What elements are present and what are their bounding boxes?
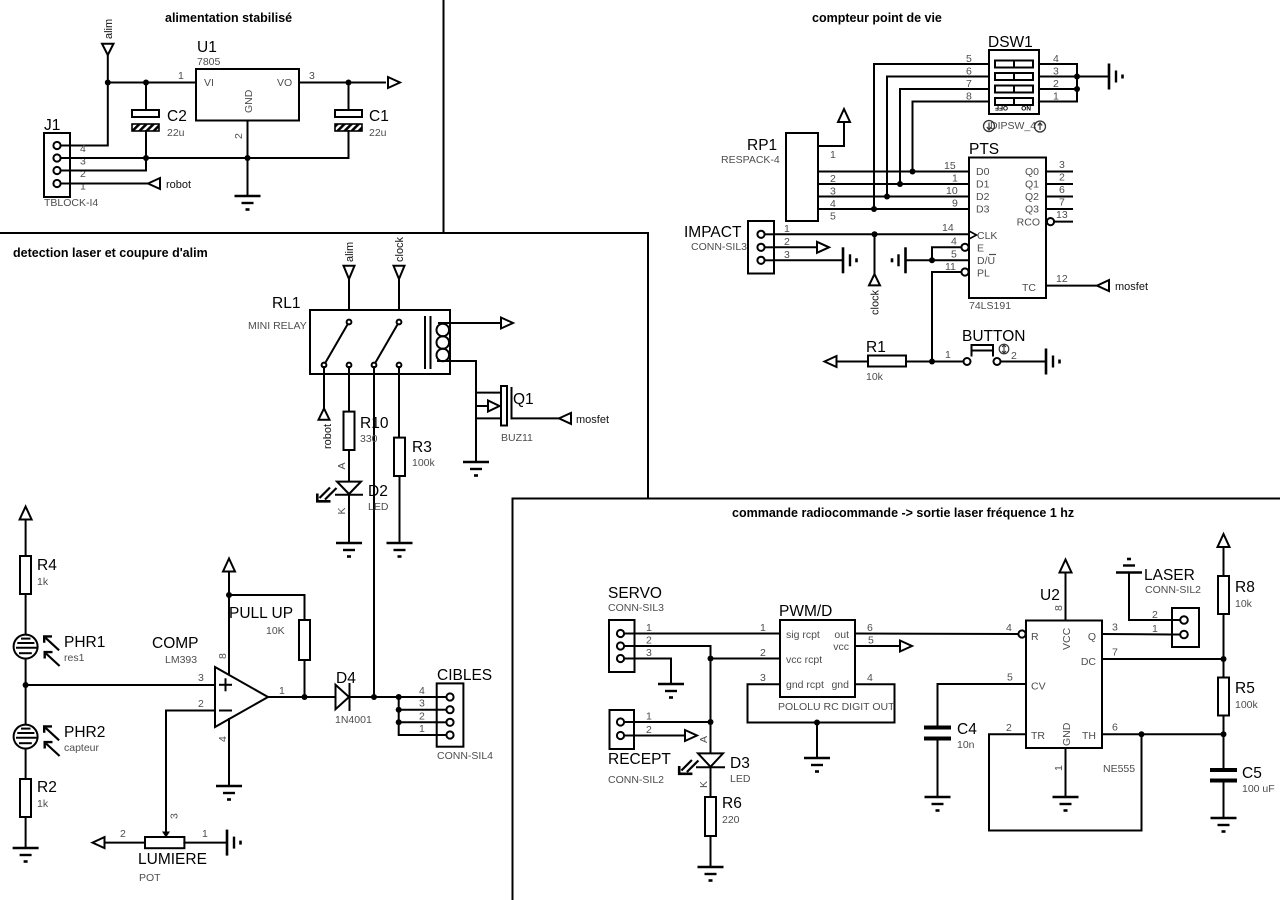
wire RP1 pin2 / D0 <box>818 171 969 173</box>
capacitor C1 <box>335 83 389 159</box>
wire PL pin down to button line <box>932 272 962 362</box>
svg-text:VI: VI <box>204 77 214 89</box>
svg-text:3: 3 <box>419 698 425 710</box>
svg-text:100 uF: 100 uF <box>1242 783 1275 795</box>
wire R2 to ground <box>25 817 27 848</box>
svg-text:74LS191: 74LS191 <box>969 300 1011 312</box>
wire SERVO pin2 to vcc rcpt <box>635 646 781 659</box>
ground (mirrored sideways) for E / D-U <box>892 247 906 273</box>
svg-text:R5: R5 <box>1235 680 1255 697</box>
svg-text:GND: GND <box>1061 722 1073 746</box>
wire CIBLES pin3 <box>399 709 437 711</box>
svg-text:12: 12 <box>1056 273 1068 285</box>
svg-text:1: 1 <box>784 223 790 235</box>
svg-text:3: 3 <box>646 647 652 659</box>
node arrow left <box>93 837 105 848</box>
svg-text:commande radiocommande -> sort: commande radiocommande -> sortie laser f… <box>732 506 1074 520</box>
wire U1 VO output <box>299 82 385 84</box>
svg-text:1: 1 <box>646 622 652 634</box>
node output arrow <box>900 641 912 652</box>
node robot (terminal) <box>319 408 335 449</box>
resistor R4 <box>20 556 57 594</box>
svg-text:PWM/D: PWM/D <box>779 603 832 620</box>
svg-text:R8: R8 <box>1235 579 1255 596</box>
wire IMPACT pin2 to arrow <box>774 246 817 248</box>
svg-text:VCC: VCC <box>1061 627 1073 650</box>
svg-text:PULL UP: PULL UP <box>229 605 293 622</box>
node alim (terminal above relay) <box>344 242 357 319</box>
junction <box>143 80 149 86</box>
wire RP1 pin3 / D1 <box>818 183 969 185</box>
wire SERVO pin3 to ground <box>635 659 672 685</box>
svg-text:compteur point de vie: compteur point de vie <box>812 11 942 25</box>
svg-text:NO: NO <box>1021 104 1031 111</box>
resistor R8 <box>1218 576 1255 614</box>
wire Q1 stub <box>1046 183 1072 185</box>
svg-text:LUMIERE: LUMIERE <box>138 851 207 868</box>
svg-text:U2: U2 <box>1040 587 1060 604</box>
wire D2 cathode to ground <box>348 495 350 543</box>
svg-text:robot: robot <box>166 179 191 191</box>
wire R3 to ground <box>399 476 401 543</box>
svg-text:22u: 22u <box>167 127 185 139</box>
wire R5 to TH node <box>1223 716 1225 735</box>
coil winding <box>437 324 450 337</box>
svg-text:4: 4 <box>419 685 425 697</box>
svg-text:DIPSW_4: DIPSW_4 <box>990 120 1036 132</box>
svg-text:SERVO: SERVO <box>608 585 662 602</box>
wire to ground <box>816 723 818 759</box>
wire R10 to D2 <box>348 450 350 482</box>
wire COMP output <box>268 696 336 698</box>
svg-text:CLK: CLK <box>977 230 997 242</box>
junction <box>929 257 935 263</box>
wire D3 to R6 <box>710 768 712 797</box>
wire J1 pin1 to robot <box>70 183 148 185</box>
svg-text:4: 4 <box>951 236 957 248</box>
svg-text:alimentation stabilisé: alimentation stabilisé <box>165 11 292 25</box>
wire to R4 <box>25 520 27 557</box>
svg-text:PTS: PTS <box>969 141 999 158</box>
svg-text:PL: PL <box>977 268 990 280</box>
wire down the CIBLES pins <box>399 697 437 735</box>
svg-text:res1: res1 <box>64 652 85 664</box>
wire to E pin <box>932 247 962 260</box>
wire DSW1 pin8 down to D0 <box>913 102 990 172</box>
svg-text:A: A <box>698 736 710 743</box>
svg-text:2: 2 <box>233 133 245 139</box>
svg-text:2: 2 <box>646 724 652 736</box>
ground (sideways) <box>1046 349 1060 375</box>
svg-text:3: 3 <box>198 672 204 684</box>
svg-text:1: 1 <box>945 349 951 361</box>
ground <box>387 543 413 557</box>
svg-text:Q1: Q1 <box>513 391 534 408</box>
wire RP1 pin1 to power <box>818 122 844 146</box>
svg-text:5: 5 <box>830 211 836 223</box>
junction <box>871 206 877 212</box>
junction <box>23 682 29 688</box>
svg-text:LASER: LASER <box>1144 567 1195 584</box>
junction <box>396 719 402 725</box>
wire RECEPT pin2 to arrow <box>634 735 685 737</box>
svg-text:D1: D1 <box>976 179 990 191</box>
svg-text:Q2: Q2 <box>1025 191 1039 203</box>
svg-text:R3: R3 <box>412 439 432 456</box>
module PWM/D POLOLU <box>779 603 855 697</box>
svg-text:2: 2 <box>784 236 790 248</box>
junction <box>1139 731 1145 737</box>
svg-text:10: 10 <box>946 185 958 197</box>
svg-text:8: 8 <box>217 653 229 659</box>
wire RECEPT pin1 to D3 line <box>634 721 711 723</box>
relay RL1 MINI RELAY <box>248 295 450 374</box>
svg-text:3: 3 <box>1112 622 1118 634</box>
wire R1 left to arrow <box>837 361 868 363</box>
svg-text:R4: R4 <box>37 557 57 574</box>
wire RP1 pin4 / D2 <box>818 196 969 198</box>
junction <box>884 194 890 200</box>
connector RECEPT <box>608 710 671 786</box>
junction <box>910 169 916 175</box>
power arrow <box>838 109 850 122</box>
ground <box>658 684 684 698</box>
wire RCO stub <box>1054 221 1072 223</box>
svg-text:1k: 1k <box>37 798 49 810</box>
svg-text:1: 1 <box>646 711 652 723</box>
svg-text:MINI RELAY: MINI RELAY <box>248 320 307 332</box>
svg-text:CONN-SIL3: CONN-SIL3 <box>691 241 747 253</box>
svg-text:TR: TR <box>1031 730 1045 742</box>
svg-text:clock: clock <box>394 236 406 262</box>
svg-text:capteur: capteur <box>64 742 100 754</box>
svg-text:DC: DC <box>1081 656 1097 668</box>
svg-text:NE555: NE555 <box>1103 763 1135 775</box>
svg-text:4: 4 <box>867 672 873 684</box>
svg-text:D4: D4 <box>336 670 356 687</box>
svg-text:Q3: Q3 <box>1025 204 1039 216</box>
wire COMP pin4 to ground <box>228 719 230 786</box>
svg-text:D3: D3 <box>730 755 750 772</box>
wire Q0 stub <box>1046 171 1072 173</box>
resistor R6 <box>705 795 742 836</box>
svg-text:R1: R1 <box>866 339 886 356</box>
LED D2 <box>317 482 389 513</box>
svg-text:1k: 1k <box>37 576 49 588</box>
ground <box>235 196 261 210</box>
node power arrow above R8 <box>1218 534 1230 547</box>
ground (sideways) <box>843 247 857 273</box>
svg-text:3: 3 <box>784 249 790 261</box>
wire PULL UP bottom to output node <box>304 660 306 697</box>
svg-text:Q: Q <box>1088 631 1096 643</box>
regulator U1 7805 <box>178 39 315 139</box>
wire Q1 gate to mosfet terminal <box>512 417 560 419</box>
svg-text:100k: 100k <box>1235 699 1259 711</box>
svg-text:LED: LED <box>730 773 751 785</box>
svg-text:5: 5 <box>1007 672 1013 684</box>
svg-text:C1: C1 <box>369 108 389 125</box>
wire coil bottom to Q1 <box>438 361 476 393</box>
wire U2 Q to LASER <box>1102 633 1170 636</box>
svg-text:6: 6 <box>867 622 873 634</box>
svg-text:robot: robot <box>322 424 334 449</box>
ground <box>13 848 39 862</box>
svg-text:220: 220 <box>722 814 740 826</box>
wire to ground <box>1077 76 1109 78</box>
svg-text:Q1: Q1 <box>1025 179 1039 191</box>
svg-text:gnd: gnd <box>831 679 849 691</box>
svg-text:U1: U1 <box>197 39 217 56</box>
svg-text:D2: D2 <box>368 483 388 500</box>
node clock (terminal above relay) <box>394 236 407 319</box>
svg-text:2: 2 <box>1059 172 1065 184</box>
connector SERVO <box>608 585 664 672</box>
svg-text:VO: VO <box>277 77 292 89</box>
svg-text:8: 8 <box>1053 605 1065 611</box>
connector IMPACT <box>684 221 790 274</box>
node robot (terminal) <box>148 178 191 191</box>
svg-text:clock: clock <box>870 289 882 315</box>
svg-text:C4: C4 <box>957 721 977 738</box>
junction <box>897 181 903 187</box>
svg-text:vcc: vcc <box>833 641 849 653</box>
wire IMPACT pin1 to CLK <box>774 233 969 235</box>
junction <box>245 155 251 161</box>
svg-text:7805: 7805 <box>197 56 221 68</box>
svg-text:CONN-SIL2: CONN-SIL2 <box>1145 584 1201 596</box>
svg-text:alim: alim <box>103 19 115 39</box>
svg-text:1: 1 <box>760 622 766 634</box>
svg-text:14: 14 <box>942 222 954 234</box>
svg-text:Q0: Q0 <box>1025 166 1039 178</box>
ground (inverted) <box>1116 559 1142 573</box>
connector J1 <box>44 117 98 209</box>
capacitor C5 <box>1210 765 1275 795</box>
svg-text:CIBLES: CIBLES <box>437 667 492 684</box>
svg-text:2: 2 <box>760 647 766 659</box>
junction <box>708 719 714 725</box>
svg-text:CONN-SIL3: CONN-SIL3 <box>608 602 664 614</box>
svg-text:K: K <box>336 507 348 514</box>
junction <box>396 694 402 700</box>
node alim (power terminal) <box>102 19 115 83</box>
junction <box>929 359 935 365</box>
wire coil top to output arrow <box>439 322 501 324</box>
node clock (terminal) <box>869 234 882 315</box>
wire alim rail to U1 VI <box>108 82 196 84</box>
svg-text:CONN-SIL4: CONN-SIL4 <box>437 750 493 762</box>
wire switch A NO down to R10 <box>348 367 350 412</box>
wire Q3 stub <box>1046 208 1072 210</box>
svg-text:BUTTON: BUTTON <box>962 328 1025 345</box>
svg-text:1: 1 <box>1152 623 1158 635</box>
svg-text:7: 7 <box>1112 647 1118 659</box>
wire TH node to C5 <box>1223 734 1225 768</box>
svg-text:BUZ11: BUZ11 <box>501 432 533 444</box>
junction <box>371 694 377 700</box>
wire pot right to ground <box>184 842 227 844</box>
svg-text:10K: 10K <box>266 625 285 637</box>
svg-text:D0: D0 <box>976 166 990 178</box>
junction <box>814 720 820 726</box>
wire R6 to ground <box>710 836 712 867</box>
switch B <box>397 320 402 325</box>
wire SERVO pin1 to sig rcpt <box>635 633 781 635</box>
svg-text:100k: 100k <box>412 457 436 469</box>
wire ground to junction <box>906 259 933 261</box>
wire U2 DC to divider <box>1102 658 1224 660</box>
svg-text:IMPACT: IMPACT <box>684 224 742 241</box>
svg-text:K: K <box>698 781 710 788</box>
wire D4 cathode to CIBLES <box>350 696 437 698</box>
svg-text:6: 6 <box>1112 722 1118 734</box>
svg-text:6: 6 <box>1059 184 1065 196</box>
dip switch DSW1 <box>966 34 1059 132</box>
svg-text:2: 2 <box>1006 722 1012 734</box>
junction <box>1221 731 1227 737</box>
wire DSW1 right pins common <box>1039 64 1077 102</box>
svg-text:10k: 10k <box>866 371 884 383</box>
svg-text:3: 3 <box>760 672 766 684</box>
wire PHR1 to PHR2 <box>25 659 27 725</box>
svg-text:RESPACK-4: RESPACK-4 <box>721 154 780 166</box>
LED D3 <box>679 753 751 785</box>
svg-text:alim: alim <box>344 242 356 262</box>
svg-text:1: 1 <box>202 828 208 840</box>
svg-text:RCO: RCO <box>1017 217 1040 229</box>
wire DSW1 pin6 down to D2 <box>887 77 989 197</box>
svg-text:2: 2 <box>419 710 425 722</box>
svg-text:7: 7 <box>1059 197 1065 209</box>
wire junction to PULL UP top <box>229 595 305 620</box>
resistor R5 <box>1218 678 1259 716</box>
svg-text:mosfet: mosfet <box>1115 281 1148 293</box>
resistor pack RP1 <box>721 133 836 223</box>
svg-text:10n: 10n <box>957 739 975 751</box>
svg-text:13: 13 <box>1056 209 1068 221</box>
wire switch B NO down to R3 <box>398 367 400 438</box>
coil core <box>424 317 426 368</box>
ground <box>463 462 489 476</box>
wire R1 right to button <box>906 361 964 363</box>
svg-text:POLOLU RC DIGIT OUT: POLOLU RC DIGIT OUT <box>778 701 895 713</box>
svg-text:J1: J1 <box>44 117 60 134</box>
wire J1 pin2 up to rail <box>70 158 146 171</box>
svg-text:RECEPT: RECEPT <box>608 751 671 768</box>
wire to D/U pin <box>932 259 969 261</box>
node mosfet (terminal) <box>1097 280 1148 293</box>
svg-text:1: 1 <box>1053 765 1065 771</box>
svg-text:R: R <box>1031 631 1039 643</box>
wire U2 pin1 to ground <box>1065 748 1067 797</box>
svg-text:4: 4 <box>1006 622 1012 634</box>
node output arrow <box>501 318 513 329</box>
ground <box>1053 797 1079 811</box>
svg-text:3: 3 <box>309 70 315 82</box>
node power arrow (left column) <box>20 507 32 520</box>
junction <box>105 80 111 86</box>
photoresistor PHR2 <box>14 724 106 756</box>
wire U2 TH to divider <box>1102 733 1224 735</box>
svg-text:gnd rcpt: gnd rcpt <box>786 679 824 691</box>
svg-text:OFF: OFF <box>995 104 1008 111</box>
wire R8 to DC node <box>1223 614 1225 659</box>
svg-text:2: 2 <box>120 828 126 840</box>
wire J1 pin3 ground rail <box>70 157 349 159</box>
svg-text:D3: D3 <box>976 204 990 216</box>
wire switch B common down to D4 node <box>373 367 375 697</box>
wire button to ground <box>1001 361 1047 363</box>
svg-text:D/U: D/U <box>977 255 995 267</box>
wire power to op-amp pin 8 <box>228 572 230 676</box>
node output arrow <box>685 730 697 741</box>
svg-text:vcc rcpt: vcc rcpt <box>786 654 822 666</box>
connector LASER <box>1144 567 1201 647</box>
ground <box>336 543 362 557</box>
wire R4 to PHR1 <box>25 594 27 635</box>
wire PHR2 to R2 <box>25 749 27 779</box>
svg-text:LM393: LM393 <box>165 654 197 666</box>
wire U2 TR loop to TH <box>989 734 1142 830</box>
svg-text:9: 9 <box>952 198 958 210</box>
svg-text:4: 4 <box>80 143 86 155</box>
svg-text:detection laser et coupure d'a: detection laser et coupure d'alim <box>13 246 208 260</box>
wire junction to COMP + input <box>26 684 215 686</box>
svg-text:1: 1 <box>80 181 86 193</box>
svg-text:RP1: RP1 <box>747 137 777 154</box>
resistor R10 <box>344 412 389 450</box>
svg-text:5: 5 <box>868 635 874 647</box>
svg-text:4: 4 <box>217 736 229 742</box>
svg-text:E: E <box>977 243 984 255</box>
svg-text:GND: GND <box>243 89 255 113</box>
wire C5 to ground <box>1223 783 1225 819</box>
svg-text:TBLOCK-I4: TBLOCK-I4 <box>44 197 98 209</box>
svg-text:D2: D2 <box>976 191 990 203</box>
node power arrow above COMP <box>223 559 235 572</box>
wire CIBLES pin2 <box>399 721 437 723</box>
switch A <box>347 320 352 325</box>
svg-text:330: 330 <box>360 433 378 445</box>
svg-text:5: 5 <box>951 249 957 261</box>
button BUTTON <box>962 328 1025 365</box>
svg-text:C2: C2 <box>167 108 187 125</box>
wire DSW1 pin5 down to D3 <box>874 64 989 209</box>
node arrow left <box>825 356 837 367</box>
wire DSW1 pin7 down to D1 <box>900 89 989 184</box>
diode D4 1N4001 <box>335 670 372 726</box>
svg-text:TC: TC <box>1022 282 1036 294</box>
ground (sideways) <box>227 830 241 856</box>
svg-text:1: 1 <box>830 149 836 161</box>
svg-text:mosfet: mosfet <box>576 414 609 426</box>
wire PWM vcc to arrow <box>855 645 900 647</box>
junction <box>226 592 232 598</box>
ground <box>216 786 242 800</box>
node mosfet (terminal) <box>559 413 609 426</box>
wire IMPACT pin3 to ground <box>774 259 843 261</box>
wire power to R8 <box>1223 547 1225 576</box>
potentiometer LUMIERE <box>120 813 208 884</box>
svg-text:2: 2 <box>198 698 204 710</box>
svg-text:LED: LED <box>368 501 389 513</box>
section border frame lines <box>443 0 445 233</box>
svg-text:10k: 10k <box>1235 598 1253 610</box>
node power arrow above U2 <box>1060 560 1072 573</box>
wire U1 pin2 to ground <box>247 121 249 197</box>
junction <box>396 707 402 713</box>
